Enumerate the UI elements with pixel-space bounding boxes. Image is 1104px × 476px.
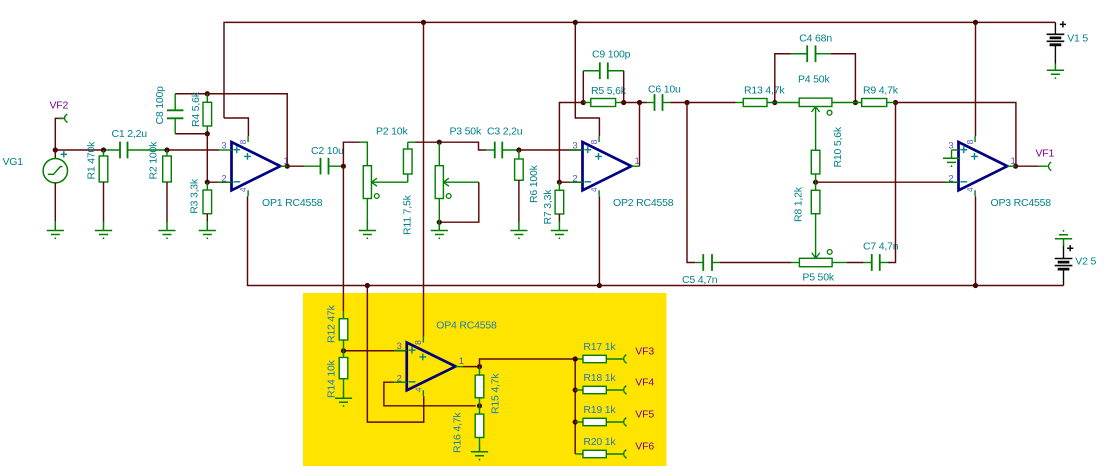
svg-text:R9 4,7k: R9 4,7k <box>863 85 899 97</box>
svg-text:C4 68n: C4 68n <box>799 32 832 44</box>
ground R6 <box>510 221 527 235</box>
wire P3 bottom stub <box>438 199 440 223</box>
wire C8 bottom to node <box>175 133 207 135</box>
wire output up to ladder <box>480 359 576 367</box>
ground R3 <box>199 221 216 235</box>
wire OP2 feedback to pin2 <box>559 103 583 183</box>
node top rail OP3 branch <box>973 20 978 25</box>
svg-text:R1 470k: R1 470k <box>85 141 97 180</box>
svg-text:C8 100p: C8 100p <box>154 86 166 125</box>
node P4 right / R9 left <box>853 100 858 105</box>
resistor R19 1k <box>575 421 583 423</box>
svg-text:8: 8 <box>413 340 423 345</box>
wire R9 to OP3 output <box>896 103 1016 167</box>
wire C9 right leg <box>623 71 625 103</box>
highlight box (yellow selection) <box>303 293 667 466</box>
svg-text:VF3: VF3 <box>635 346 654 358</box>
svg-text:P5 50k: P5 50k <box>802 272 834 284</box>
svg-text:R15 4,7k: R15 4,7k <box>490 373 502 414</box>
voltage pin VF4 <box>624 386 627 395</box>
node feedback top <box>205 91 210 96</box>
resistor R6 <box>518 150 520 159</box>
wire R1 to ground <box>103 182 105 222</box>
resistor R9 <box>862 99 887 107</box>
node ladder R18 <box>573 387 578 392</box>
node R15/R16 junction <box>477 403 482 408</box>
svg-text:3: 3 <box>397 341 402 352</box>
wire R3 to ground <box>206 214 208 222</box>
node OP1 pin2 <box>205 180 210 185</box>
node P3 bottom <box>437 220 442 225</box>
node R2 top <box>164 147 169 152</box>
svg-text:V1 5: V1 5 <box>1067 33 1088 45</box>
wire OP4 output <box>456 366 464 368</box>
voltage pin VF1 <box>1039 165 1048 167</box>
wire C4 left leg <box>775 54 791 103</box>
wire main input row <box>55 149 103 151</box>
wire OP4 pin4 supply hook <box>367 286 423 423</box>
svg-text:VF1: VF1 <box>1036 148 1055 160</box>
svg-text:P4 50k: P4 50k <box>798 74 830 86</box>
svg-text:R18 1k: R18 1k <box>583 372 616 384</box>
svg-text:VF4: VF4 <box>635 377 654 389</box>
wire OP2 pin8 supply <box>575 22 599 136</box>
svg-text:P2 10k: P2 10k <box>376 126 408 138</box>
svg-text:OP4 RC4558: OP4 RC4558 <box>436 320 497 332</box>
capacitor C1 <box>120 142 128 159</box>
node OP2 pin2 <box>557 180 562 185</box>
resistor R5 <box>583 102 591 104</box>
node R1 top <box>101 147 106 152</box>
resistor R13 <box>743 99 767 107</box>
svg-text:R19 1k: R19 1k <box>583 404 616 416</box>
svg-text:R6 100k: R6 100k <box>528 164 540 203</box>
battery V2 5 <box>1063 246 1065 259</box>
ground V1 <box>1047 64 1064 75</box>
ground OP3 pin3 <box>943 158 960 162</box>
svg-text:C5 4,7n: C5 4,7n <box>682 274 718 286</box>
node ladder top <box>573 356 578 361</box>
wire node to OP1 pin2 <box>207 181 231 183</box>
capacitor C4 <box>791 53 808 55</box>
resistor R16 <box>479 406 481 414</box>
wire OP2 output up to C6 node <box>631 165 639 167</box>
svg-text:C9 100p: C9 100p <box>592 49 631 61</box>
wire P2 bottom to ground <box>366 199 368 223</box>
wire bottom -5V rail <box>248 196 1064 285</box>
svg-text:R13 4,7k: R13 4,7k <box>744 85 785 97</box>
wire C2 net down to R12 <box>342 166 344 311</box>
wire C7 up to R9 node <box>888 103 896 263</box>
wire OP1 output to C2 <box>280 165 287 167</box>
wire C5 to P5 <box>720 262 791 264</box>
svg-text:R4 5,6k: R4 5,6k <box>190 91 202 127</box>
svg-text:P3 50k: P3 50k <box>450 126 482 138</box>
svg-text:2: 2 <box>397 373 402 384</box>
wire C4 right leg <box>831 54 856 103</box>
resistor R8 <box>815 182 817 190</box>
svg-text:R7 3,3k: R7 3,3k <box>542 189 554 225</box>
node OP1 output <box>285 164 290 169</box>
node ladder R19 <box>573 419 578 424</box>
resistor R12 <box>339 319 348 340</box>
ground P3 <box>431 222 448 234</box>
resistor R1 <box>103 150 105 156</box>
ground R16 <box>471 444 488 456</box>
wire R6 to ground <box>518 180 520 222</box>
resistor R3 <box>206 182 208 190</box>
wire OP4 pin8 supply <box>423 22 425 336</box>
resistor R10 <box>811 150 820 174</box>
svg-text:2: 2 <box>572 173 577 184</box>
svg-text:R5 5,6k: R5 5,6k <box>591 85 627 97</box>
wire OP2 pin4 to bottom rail <box>598 196 600 285</box>
svg-text:VF2: VF2 <box>50 100 69 112</box>
svg-text:R16 4,7k: R16 4,7k <box>452 412 464 453</box>
wire C6 to R13 <box>663 102 671 104</box>
svg-text:C1 2,2u: C1 2,2u <box>112 128 148 140</box>
svg-text:R20 1k: R20 1k <box>583 436 616 448</box>
wire OP3 pin3 to ground <box>952 149 959 151</box>
node R13 right / P4 left <box>772 100 777 105</box>
node top rail OP4 branch <box>421 20 426 25</box>
svg-text:4: 4 <box>589 187 599 192</box>
svg-text:8: 8 <box>238 139 248 144</box>
wire P4 wiper to R10 <box>815 107 817 151</box>
wire P3 wiper loop to bottom <box>444 181 479 183</box>
wire ladder vertical <box>574 359 576 454</box>
wire R13 to P4 <box>767 102 799 104</box>
wire top +5V rail <box>224 22 1055 118</box>
node OP4 output <box>477 364 482 369</box>
capacitor C2 <box>321 158 329 175</box>
wire P4 to R9 <box>832 102 862 104</box>
node R6 top <box>516 147 521 152</box>
generator VG1 <box>43 159 67 183</box>
op-amp OP3 RC4558 <box>959 142 1008 190</box>
potentiometer P4 50k <box>799 98 832 106</box>
svg-text:1: 1 <box>459 356 464 367</box>
resistor R7 <box>558 182 560 190</box>
svg-text:OP1 RC4558: OP1 RC4558 <box>262 197 323 209</box>
svg-text:C7 4,7n: C7 4,7n <box>863 240 899 252</box>
node bottom rail OP3 <box>973 283 978 288</box>
resistor R4 <box>206 94 208 103</box>
wire C3 node to OP2 pin3 <box>519 149 583 151</box>
node C6 right <box>684 100 689 105</box>
svg-text:R11 7,5k: R11 7,5k <box>402 194 414 235</box>
wire OP3 pin8 supply <box>975 22 977 136</box>
node P3 top <box>437 140 442 145</box>
svg-text:3: 3 <box>572 140 577 151</box>
wire R14 to ground <box>343 379 345 390</box>
wire P5 to C7 <box>832 262 847 264</box>
node top rail OP2 branch <box>573 20 578 25</box>
svg-text:R14 10k: R14 10k <box>326 359 338 398</box>
wire R2 to ground <box>166 182 168 222</box>
node A (VG1 output) <box>53 147 58 152</box>
resistor R20 1k <box>575 453 583 455</box>
svg-text:OP2 RC4558: OP2 RC4558 <box>613 197 674 209</box>
wire R7 to ground <box>558 214 560 222</box>
svg-text:4: 4 <box>413 387 423 392</box>
resistor R17 1k <box>575 358 583 360</box>
svg-text:8: 8 <box>589 139 599 144</box>
wire OP3 pin4 to bottom rail <box>975 196 977 285</box>
capacitor C7 <box>864 262 872 264</box>
svg-text:R12 47k: R12 47k <box>326 304 338 343</box>
svg-text:OP3 RC4558: OP3 RC4558 <box>991 197 1052 209</box>
wire R8 to P5 wiper <box>815 214 817 254</box>
wire node down to P3 <box>438 142 440 166</box>
svg-text:VG1: VG1 <box>3 156 24 168</box>
node C6 left / OP2 out <box>637 100 642 105</box>
svg-text:2: 2 <box>948 173 953 184</box>
node R12/R14 junction <box>341 348 346 353</box>
svg-text:VF5: VF5 <box>635 409 654 421</box>
svg-text:R17 1k: R17 1k <box>583 341 616 353</box>
node C2 output <box>341 164 346 169</box>
potentiometer P2 10k <box>363 166 371 199</box>
ground R2 <box>158 221 175 235</box>
svg-text:C2 10u: C2 10u <box>311 145 344 157</box>
wire VG1 bottom to ground <box>54 183 56 222</box>
resistor R11 <box>407 174 409 182</box>
resistor R2 <box>166 150 168 156</box>
svg-text:3: 3 <box>221 140 226 151</box>
wire R11 top to P3 top node <box>408 141 416 143</box>
node R5 left <box>581 100 586 105</box>
wire feedback top (OP1 out to C8/R4) <box>175 94 287 166</box>
wire R5 right to C6 <box>624 102 647 104</box>
wire C5 left leg <box>687 103 695 263</box>
voltage pin VF3 <box>624 355 627 364</box>
wire node to OP2 pin2 <box>559 181 582 183</box>
node R5 right <box>621 100 626 105</box>
svg-text:8: 8 <box>965 139 975 144</box>
wire C2 node up to P2 top <box>343 142 359 166</box>
svg-text:C6 10u: C6 10u <box>648 84 681 96</box>
svg-text:VF6: VF6 <box>635 441 654 453</box>
wire P2 wiper to R11 <box>372 181 408 183</box>
wire OP1 pin8 supply <box>224 118 248 136</box>
svg-text:R3 3,3k: R3 3,3k <box>189 178 201 214</box>
resistor R15 <box>479 367 481 375</box>
node bottom rail OP2 <box>597 283 602 288</box>
wire output to VF1 pin <box>1016 165 1039 167</box>
ground R7 <box>551 221 568 235</box>
ground R1 <box>95 221 112 235</box>
capacitor C5 <box>695 262 703 264</box>
svg-text:4: 4 <box>965 187 975 192</box>
node bottom rail OP4 branch <box>365 283 370 288</box>
capacitor C8 <box>174 94 176 111</box>
svg-text:R10 5,6k: R10 5,6k <box>832 126 844 167</box>
svg-text:4: 4 <box>238 187 248 192</box>
capacitor C6 <box>655 94 663 111</box>
node R10/R8 junction <box>813 180 818 185</box>
battery V1 5 <box>1054 22 1056 34</box>
wire VG1 to node <box>54 150 56 158</box>
node feedback bottom <box>205 131 210 136</box>
wire C9 left leg <box>582 71 584 103</box>
wire junction to OP4 pin3 <box>344 350 407 352</box>
op-amp OP4 RC4558 <box>407 343 456 391</box>
potentiometer P3 50k <box>435 166 443 199</box>
ground P2 <box>359 221 376 235</box>
resistor R18 1k <box>575 389 583 391</box>
voltage pin VF5 <box>624 418 627 427</box>
svg-text:R8 1,2k: R8 1,2k <box>793 186 805 222</box>
wire P3 node to C3 <box>439 142 486 150</box>
wire R16 to ground <box>479 438 481 445</box>
voltage pin VF2 <box>58 117 64 119</box>
potentiometer P5 50k <box>799 258 832 266</box>
capacitor C3 <box>495 142 503 159</box>
wire junction to OP3 pin2 <box>816 181 959 183</box>
node OP3 output <box>1013 164 1018 169</box>
svg-text:C3 2,2u: C3 2,2u <box>487 126 523 138</box>
op-amp OP1 RC4558 <box>232 142 281 190</box>
wire OP4 feedback loop <box>384 382 476 406</box>
wire feedback down to inverting input <box>206 134 208 182</box>
node R9 right <box>893 100 898 105</box>
wire OP3 output stub <box>1007 165 1015 167</box>
op-amp OP2 RC4558 <box>583 142 632 190</box>
wire VF2 pin stem <box>55 118 63 150</box>
resistor R14 <box>343 351 345 358</box>
svg-text:V2 5: V2 5 <box>1075 256 1096 268</box>
capacitor C9 <box>583 70 600 72</box>
ground VG1 <box>47 221 64 235</box>
svg-text:2: 2 <box>221 173 226 184</box>
inverted ground V2 <box>1055 235 1072 246</box>
svg-text:R2 100k: R2 100k <box>148 141 160 180</box>
ground R14 <box>335 390 352 402</box>
voltage pin VF6 <box>624 450 627 459</box>
